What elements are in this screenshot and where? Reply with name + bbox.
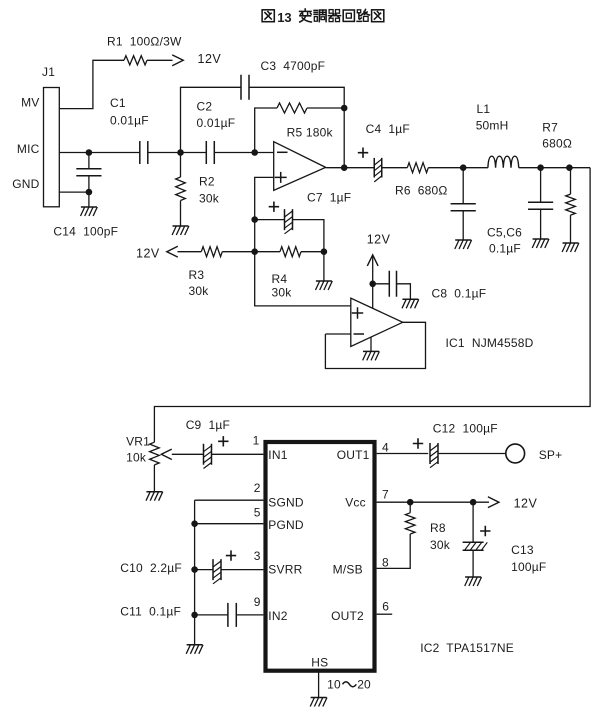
svg-text:C12 100µF: C12 100µF bbox=[433, 422, 498, 436]
node E (C5) bbox=[460, 164, 467, 171]
svg-text:IN1: IN1 bbox=[268, 448, 287, 462]
svg-text:8: 8 bbox=[382, 556, 389, 570]
capacitor C10 2.2µF bbox=[213, 559, 221, 580]
svg-text:R2: R2 bbox=[199, 175, 215, 189]
wire node C to R4 bbox=[255, 251, 280, 253]
wire OUT1 pin 4 bbox=[377, 453, 429, 455]
wire IC1b minus stub bbox=[325, 333, 350, 335]
resistor R1 bbox=[124, 56, 147, 65]
svg-text:MIC: MIC bbox=[17, 142, 40, 156]
svg-text:VR1: VR1 bbox=[126, 435, 150, 449]
svg-text:C8 0.1µF: C8 0.1µF bbox=[432, 287, 487, 301]
capacitor C11 0.1µF bbox=[228, 603, 236, 627]
svg-text:2: 2 bbox=[254, 481, 261, 495]
svg-text:R5 180k: R5 180k bbox=[287, 126, 334, 140]
node D (R4/C7) bbox=[321, 248, 328, 255]
ground under R2 bbox=[173, 225, 189, 227]
svg-text:30k: 30k bbox=[199, 192, 220, 206]
wire R3 to node C bbox=[222, 251, 254, 253]
svg-text:30k: 30k bbox=[272, 286, 293, 300]
resistor R7 bbox=[566, 194, 576, 215]
node C10 tee bbox=[191, 566, 198, 573]
wire plus input bbox=[255, 177, 274, 219]
arrow to 12V left bbox=[167, 246, 178, 257]
svg-text:10k: 10k bbox=[126, 451, 147, 465]
resistor R2 bbox=[176, 177, 186, 201]
wire OUT2 pin 6 stub bbox=[377, 613, 393, 615]
svg-text:0.01µF: 0.01µF bbox=[197, 116, 236, 130]
title 図13 変調器回路図 bbox=[262, 10, 274, 22]
capacitor C3 bbox=[241, 75, 249, 100]
capacitor C13 100µF bbox=[463, 542, 484, 550]
svg-text:4: 4 bbox=[382, 441, 389, 455]
svg-text:C1: C1 bbox=[110, 96, 126, 110]
svg-text:Vcc: Vcc bbox=[345, 496, 366, 510]
wire R7 to ground bbox=[570, 215, 572, 243]
terminal SP+ circle bbox=[506, 444, 525, 463]
node G (R7) bbox=[566, 164, 573, 171]
node A (C1/C2/C3/R2) bbox=[177, 149, 184, 156]
capacitor C8 bbox=[389, 271, 396, 297]
wire R2 to ground bbox=[180, 201, 182, 227]
svg-text:IC2 TPA1517NE: IC2 TPA1517NE bbox=[420, 641, 514, 655]
wire GND pin bbox=[59, 191, 89, 193]
ground under C6 bbox=[533, 238, 549, 240]
node F (C6) bbox=[537, 164, 544, 171]
svg-text:R7: R7 bbox=[542, 121, 558, 135]
wire IC1b feedback loop bbox=[325, 322, 425, 368]
wire to C7 bbox=[255, 219, 285, 221]
wire C8 to ground bbox=[397, 284, 411, 300]
wire VR1 to ground bbox=[153, 465, 155, 492]
wire C4 to R6 bbox=[382, 167, 408, 169]
plus sign C7 bbox=[269, 202, 279, 212]
node PGND tee bbox=[191, 520, 198, 527]
VR1 wiper arrow bbox=[161, 449, 172, 459]
inductor L1 bbox=[488, 156, 519, 168]
svg-text:1: 1 bbox=[253, 434, 260, 448]
wire HS pin bbox=[318, 671, 320, 698]
svg-text:C4 1µF: C4 1µF bbox=[366, 122, 410, 136]
svg-text:MV: MV bbox=[21, 96, 39, 110]
wire output bbox=[326, 167, 375, 169]
svg-text:20: 20 bbox=[357, 678, 371, 692]
ground under C14 bbox=[81, 206, 97, 208]
ground under IC1b bbox=[363, 350, 379, 352]
wire R8 to M/SB pin 8 bbox=[377, 534, 411, 568]
svg-text:0.01µF: 0.01µF bbox=[110, 114, 149, 128]
ground under VR1 bbox=[146, 491, 162, 493]
svg-text:12V: 12V bbox=[198, 52, 222, 66]
node C11 tee bbox=[191, 612, 198, 619]
node R8 tee bbox=[407, 499, 414, 506]
svg-text:30k: 30k bbox=[189, 284, 210, 298]
svg-text:13: 13 bbox=[277, 10, 291, 25]
arrow to 12V supply bbox=[172, 55, 183, 66]
wire C5 to ground bbox=[462, 211, 464, 240]
node C13 tee bbox=[470, 499, 477, 506]
svg-text:L1: L1 bbox=[477, 102, 491, 116]
resistor R8 bbox=[405, 513, 415, 534]
wire SGND pin 2 bbox=[195, 499, 264, 501]
resistor R4 bbox=[280, 247, 301, 257]
svg-text:C2: C2 bbox=[197, 100, 213, 114]
op-amp IC1b minus bbox=[354, 333, 365, 335]
resistor R3 bbox=[201, 247, 222, 257]
plus sign C13 bbox=[480, 526, 490, 536]
node MIC junction bbox=[86, 149, 93, 156]
wire MV pin to R1 branch bbox=[59, 60, 124, 108]
wire C10 to SVRR pin 3 bbox=[221, 569, 263, 571]
resistor R5 bbox=[277, 103, 307, 113]
svg-text:R8: R8 bbox=[430, 521, 446, 535]
wire R8 stem top bbox=[409, 502, 411, 513]
plus sign C10 bbox=[226, 550, 236, 560]
connector J1 bbox=[44, 88, 60, 207]
svg-text:12V: 12V bbox=[514, 497, 538, 511]
ground under bus bbox=[187, 644, 203, 646]
svg-text:C5,C6: C5,C6 bbox=[487, 226, 522, 240]
svg-text:30k: 30k bbox=[430, 538, 451, 552]
svg-text:7: 7 bbox=[382, 488, 389, 502]
wire C2 to node B bbox=[214, 152, 274, 154]
wire to C8 bbox=[373, 283, 390, 285]
wire node F to C6 bbox=[540, 168, 542, 203]
capacitor C7 1µF bbox=[285, 209, 293, 230]
ground under C5 bbox=[455, 239, 471, 241]
svg-text:J1: J1 bbox=[42, 65, 55, 79]
svg-text:C11 0.1µF: C11 0.1µF bbox=[120, 605, 181, 619]
IC2 TPA1517NE body bbox=[266, 442, 375, 671]
ground under HS bbox=[311, 697, 327, 699]
svg-text:SVRR: SVRR bbox=[268, 563, 302, 577]
op-amp IC1b triangle bbox=[351, 298, 403, 346]
svg-text:GND: GND bbox=[12, 177, 39, 191]
wire C14 to GND pin wire bbox=[88, 176, 90, 192]
wire wiper to C9 bbox=[172, 453, 204, 455]
capacitor C9 1µF bbox=[204, 444, 212, 465]
capacitor C5 bbox=[451, 204, 476, 211]
svg-text:680Ω: 680Ω bbox=[542, 137, 572, 151]
svg-text:C3 4700pF: C3 4700pF bbox=[261, 59, 326, 73]
wire node B column bbox=[254, 220, 256, 252]
svg-text:IC1 NJM4558D: IC1 NJM4558D bbox=[446, 336, 534, 350]
wire top to bottom section bbox=[154, 168, 590, 443]
svg-text:OUT2: OUT2 bbox=[331, 609, 364, 623]
wire C12 to SP+ bbox=[438, 453, 506, 455]
svg-text:5: 5 bbox=[254, 506, 261, 520]
capacitor C2 bbox=[206, 141, 214, 164]
node B (inverting input) bbox=[251, 149, 258, 156]
wire MIC pin to C1 bbox=[59, 152, 139, 154]
node C8 tee bbox=[369, 281, 376, 288]
wire node A to R2 bbox=[180, 153, 182, 178]
svg-text:R6 680Ω: R6 680Ω bbox=[395, 184, 448, 198]
svg-text:12V: 12V bbox=[367, 233, 391, 247]
svg-text:50mH: 50mH bbox=[476, 118, 509, 132]
wire IC1b ground stem bbox=[370, 337, 372, 351]
wire Vcc pin 7 bbox=[377, 501, 489, 503]
wire C13 stem bbox=[472, 502, 474, 542]
capacitor C1 bbox=[140, 141, 148, 164]
op-amp IC1a triangle bbox=[274, 142, 326, 191]
svg-text:R3: R3 bbox=[189, 268, 205, 282]
ground under C8 bbox=[402, 298, 418, 300]
wire C3 to output column bbox=[249, 87, 345, 167]
svg-text:SP+: SP+ bbox=[539, 448, 563, 462]
svg-text:R1 100Ω/3W: R1 100Ω/3W bbox=[107, 35, 182, 49]
wire C6 to ground bbox=[540, 209, 542, 239]
svg-text:3: 3 bbox=[254, 549, 261, 563]
svg-text:SGND: SGND bbox=[268, 496, 304, 510]
plus sign C4 bbox=[358, 148, 368, 158]
svg-text:C10 2.2µF: C10 2.2µF bbox=[120, 561, 182, 575]
wire C13 to ground bbox=[472, 550, 474, 577]
svg-text:0.1µF: 0.1µF bbox=[489, 242, 521, 256]
node output bbox=[341, 164, 348, 171]
wire R5 to output column bbox=[307, 107, 344, 109]
svg-text:R4: R4 bbox=[272, 272, 288, 286]
svg-text:C7 1µF: C7 1µF bbox=[307, 191, 351, 205]
wire R4 to node D bbox=[301, 251, 324, 253]
svg-text:100µF: 100µF bbox=[511, 560, 546, 574]
wire node E to C5 bbox=[462, 168, 464, 204]
capacitor C6 bbox=[528, 202, 553, 209]
wire C7 to R4 column bbox=[293, 220, 324, 252]
svg-text:C9 1µF: C9 1µF bbox=[186, 418, 230, 432]
potentiometer VR1 bbox=[150, 442, 160, 465]
svg-text:12V: 12V bbox=[136, 247, 160, 261]
wire to C10 bbox=[195, 569, 213, 571]
svg-text:PGND: PGND bbox=[268, 518, 304, 532]
node C7 left bbox=[251, 216, 258, 223]
wire node to C14 bbox=[88, 153, 90, 169]
svg-text:OUT1: OUT1 bbox=[337, 448, 370, 462]
resistor R6 bbox=[407, 163, 428, 173]
svg-text:C13: C13 bbox=[511, 543, 534, 557]
wire to C11 bbox=[195, 614, 228, 616]
ground under R7 bbox=[563, 242, 579, 244]
ground under R4 bbox=[316, 280, 332, 282]
svg-text:C14 100pF: C14 100pF bbox=[53, 225, 118, 239]
wire L1 to right corner bbox=[519, 167, 590, 169]
op-amp IC1b plus bbox=[352, 307, 363, 318]
wire node G to R7 bbox=[570, 168, 572, 194]
ground under C13 bbox=[465, 576, 481, 578]
plus sign C9 bbox=[218, 436, 228, 446]
svg-text:10: 10 bbox=[327, 678, 341, 692]
capacitor C12 100µF bbox=[430, 443, 438, 464]
wire PGND pin 5 bbox=[195, 523, 264, 525]
wire node B up to R5 bbox=[255, 108, 277, 153]
node C (R3/R4) bbox=[251, 248, 258, 255]
wire ground bus bbox=[194, 500, 196, 645]
svg-text:HS: HS bbox=[311, 656, 328, 670]
wire C9 to IN1 bbox=[212, 453, 264, 455]
capacitor C4 1µF bbox=[374, 158, 382, 178]
capacitor C14 bbox=[76, 169, 101, 176]
wire R6 to node E bbox=[428, 167, 488, 169]
arrow up 12V bbox=[367, 255, 378, 266]
wire arrow to R3 bbox=[178, 251, 202, 253]
wire node D to ground bbox=[323, 252, 325, 281]
op-amp IC1a minus bbox=[277, 151, 288, 153]
svg-text:6: 6 bbox=[382, 600, 389, 614]
wire node A up to C3 bbox=[181, 87, 242, 152]
node GND junction bbox=[86, 189, 93, 196]
arrow 12V right bbox=[488, 497, 499, 508]
svg-text:IN2: IN2 bbox=[268, 609, 287, 623]
wire C11 to IN2 pin 9 bbox=[236, 614, 263, 616]
wire 12V stem bbox=[372, 256, 374, 308]
plus sign C12 bbox=[413, 438, 423, 448]
op-amp IC1a plus bbox=[275, 172, 287, 183]
wire R1 to arrow bbox=[147, 59, 173, 61]
wire node C to IC1b plus bbox=[255, 252, 351, 306]
svg-text:9: 9 bbox=[254, 595, 261, 609]
wire C1 to node A bbox=[148, 152, 206, 154]
svg-text:M/SB: M/SB bbox=[333, 563, 363, 577]
wire to ground bbox=[88, 192, 90, 207]
node R5/C3 column junction bbox=[341, 105, 348, 112]
